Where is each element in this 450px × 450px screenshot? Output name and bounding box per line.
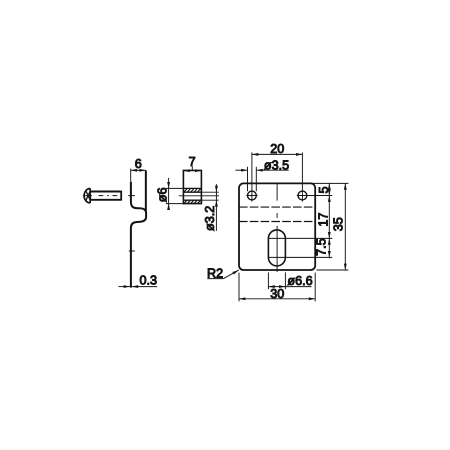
dimension 20 (hole spacing) [252,153,303,156]
svg-text:R2: R2 [207,266,223,280]
slot ø6.6 (obround) [268,230,285,266]
svg-text:6: 6 [135,157,142,171]
dimension 30 (plate width) [239,273,315,302]
svg-text:20: 20 [270,142,284,156]
svg-text:ø6: ø6 [156,188,170,203]
svg-text:7: 7 [189,155,196,169]
dimension ø3.2 (bushing bore) [201,184,218,231]
svg-text:ø3.5: ø3.5 [264,158,289,172]
chain dimensions 5 / 17 / 7.5 (right side) [328,183,331,258]
bracket profile (side view, Z-bend sheet) [128,170,146,287]
dimension ø6.6 (slot width) [268,272,311,289]
dimension 35 (plate height) [312,183,349,270]
svg-text:ø6.6: ø6.6 [287,274,312,288]
dimension ø3.5 (hole dia) [235,167,288,191]
bushing (section view) [183,170,201,203]
svg-text:30: 30 [270,287,284,301]
hole right ø3.5 [298,191,307,200]
screw (M3 pan head, side view) [83,188,122,203]
bend lines (dashed) [239,207,315,221]
bushing centerline [179,195,219,197]
dimension 6 (top of side view) [131,169,146,182]
plate (front view, rounded rectangle) [239,183,315,270]
svg-text:0.3: 0.3 [140,273,158,287]
svg-text:35: 35 [332,217,346,231]
plate vertical centerline [276,184,278,272]
svg-text:7.5: 7.5 [315,238,329,256]
svg-text:17: 17 [317,213,331,227]
slot arc-center lines [268,238,332,257]
hole left ø3.5 [248,191,257,200]
svg-text:ø3.2: ø3.2 [203,206,217,231]
hole crosshairs [246,152,332,201]
label R2 with leader [207,270,238,279]
bushing hatching [184,189,201,204]
dimension ø6 (bushing OD) [166,178,184,210]
svg-text:5: 5 [317,186,331,193]
dimension 7 (bushing width) [183,166,201,172]
dimension 0.3 (sheet thickness) [118,285,157,288]
